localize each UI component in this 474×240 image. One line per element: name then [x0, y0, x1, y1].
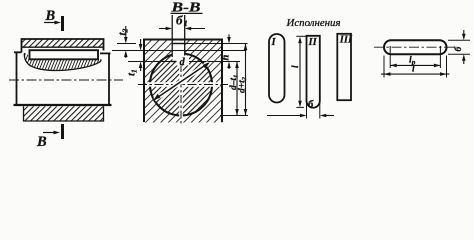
svg-text:t2: t2: [117, 28, 130, 35]
hub upper section (hatched): [22, 39, 104, 52]
dimension b (top): [159, 13, 205, 31]
shaft cross-section (hatched circle): [150, 54, 212, 116]
keyway slot (white): [172, 41, 184, 62]
svg-text:В: В: [36, 134, 47, 148]
svg-text:I: I: [271, 37, 277, 48]
extension line key top: [185, 43, 248, 45]
execution I (both ends rounded): [269, 34, 285, 103]
key centerline: [374, 46, 457, 48]
key edges in slot: [172, 15, 185, 62]
dimension t1 (left): [126, 39, 143, 76]
shaft centerline: [9, 79, 123, 81]
svg-text:б: б: [453, 46, 464, 52]
dimension b (width of executions): [267, 100, 334, 119]
svg-text:III: III: [339, 35, 353, 46]
svg-text:t1: t1: [126, 69, 139, 76]
execution II (one end rounded): [307, 36, 320, 108]
svg-text:d: d: [180, 57, 186, 68]
extension line circle bottom: [220, 115, 248, 117]
dimension d+t2 (right): [237, 44, 248, 116]
dimension h (right): [220, 35, 231, 70]
execution III (plain): [337, 34, 353, 100]
hub lower section (hatched): [24, 106, 104, 121]
dimension b (right, key width): [448, 30, 470, 64]
hub block (hatched square): [144, 40, 222, 123]
svg-text:l: l: [412, 65, 415, 75]
diameter d callout: [153, 56, 209, 101]
title B-B: [170, 1, 202, 16]
key outline (plan): [384, 40, 447, 54]
dimension l (length of executions): [291, 36, 307, 107]
dimension t2 (left): [117, 26, 130, 58]
extension line keyway bottom: [128, 61, 240, 63]
section mark B (bottom): [36, 124, 63, 150]
centerlines of section: [138, 64, 228, 124]
extension line key top left: [117, 43, 136, 45]
section mark B (top): [44, 8, 63, 31]
svg-text:h: h: [220, 55, 231, 61]
svg-text:б: б: [308, 100, 314, 111]
key (side view, not sectioned): [30, 50, 99, 59]
svg-text:II: II: [308, 37, 318, 48]
svg-text:В: В: [45, 8, 56, 24]
dimension l (full length): [381, 56, 450, 78]
shaft surface line through section: [112, 50, 247, 52]
shaft: [14, 52, 112, 105]
local-cut crescent of shaft keyway (hatched): [24, 53, 101, 71]
dimension d-t1 (right): [229, 62, 240, 116]
dimension lp (working length): [390, 46, 440, 68]
svg-text:Исполнения: Исполнения: [285, 18, 340, 29]
svg-text:l: l: [291, 65, 301, 68]
